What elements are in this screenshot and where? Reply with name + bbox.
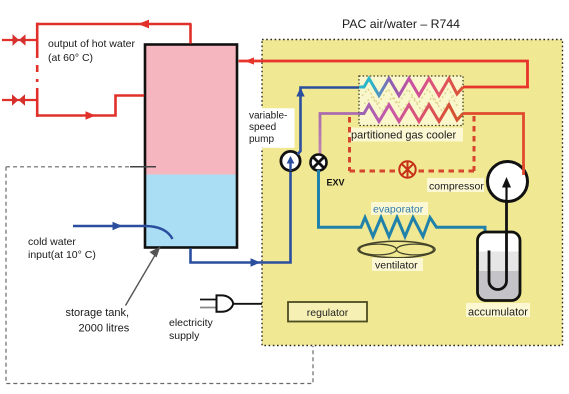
wire: EXV to evaporator (teal)	[319, 170, 357, 227]
electricity plug	[200, 295, 262, 311]
ventilator fan	[358, 241, 435, 257]
svg-text:partitioned gas cooler: partitioned gas cooler	[351, 130, 457, 142]
gas cooler GC1 box	[359, 76, 463, 126]
svg-text:EXV: EXV	[327, 178, 345, 188]
wire: hot water out, tank top riser	[189, 24, 192, 44]
evaporator coil	[356, 218, 485, 237]
svg-text:(at 60° C): (at 60° C)	[48, 52, 93, 64]
wire: left red drop (solid top)	[36, 23, 39, 55]
EXV valve	[311, 155, 327, 171]
gas cooler refrigerant coil (bottom row)	[359, 105, 463, 122]
svg-text:supply: supply	[169, 330, 200, 342]
wire: left red drop (solid bottom)	[36, 88, 39, 117]
regulator box	[288, 302, 367, 322]
label: ventilator	[372, 258, 423, 272]
arrow pump riser	[296, 88, 304, 97]
wire: bottom red run to tank	[36, 96, 144, 116]
wire: left red drop (dash-dot)	[36, 55, 39, 88]
boundary leader to tank (solid tick)	[130, 166, 156, 168]
compressor CP1	[488, 162, 528, 202]
svg-text:cold water: cold water	[28, 236, 76, 248]
system boundary (dashed box)	[6, 167, 313, 384]
arrow on return (left, near tank)	[245, 57, 255, 64]
PAC enclosure (yellow box)	[262, 40, 563, 346]
cold inlet curve inside tank	[146, 226, 173, 239]
svg-text:accumulator: accumulator	[468, 307, 528, 319]
svg-text:2000 litres: 2000 litres	[79, 323, 130, 335]
svg-text:input(at 10° C): input(at 10° C)	[28, 249, 96, 261]
fan/partition valve symbol (red circle with spokes)	[399, 161, 415, 177]
label: evaporator	[371, 202, 428, 216]
wire: EXV to gas cooler (refrigerant liquid, purple)	[320, 114, 359, 156]
wire: gas cooler to compressor (red, refrigerant)	[463, 114, 524, 175]
wire: cold water inlet	[73, 225, 146, 228]
gas cooler water coil (top row)	[359, 79, 463, 96]
svg-text:electricity: electricity	[169, 317, 214, 329]
U-tube and suction line to compressor	[489, 200, 507, 290]
label: partitioned gas cooler	[349, 128, 463, 142]
storage tank leader arrow	[126, 247, 161, 306]
arrow on top run (left)	[138, 20, 149, 29]
valve V2	[12, 94, 25, 105]
label: variable-speed pump	[248, 108, 295, 148]
partition dashed box	[350, 116, 475, 171]
svg-text:variable-: variable-	[249, 110, 287, 121]
valve V2 stub	[2, 99, 38, 101]
wire: pump to gas cooler (water in)	[298, 88, 360, 155]
label: accumulator	[466, 303, 530, 319]
arrow on bottom red run (right)	[86, 111, 96, 120]
svg-text:regulator: regulator	[307, 307, 349, 319]
svg-text:evaporator: evaporator	[373, 204, 424, 216]
regulator-to-boundary dashed link	[312, 329, 314, 345]
svg-text:output of hot water: output of hot water	[48, 38, 135, 50]
svg-text:storage tank,: storage tank,	[66, 307, 130, 319]
label: compressor	[427, 178, 484, 193]
arrow on cold inlet	[113, 222, 123, 231]
svg-text:speed: speed	[249, 122, 276, 133]
svg-text:PAC air/water – R744: PAC air/water – R744	[342, 17, 460, 31]
valve V1	[13, 34, 26, 45]
arrow on drain run	[251, 258, 261, 267]
svg-text:compressor: compressor	[429, 181, 484, 193]
wire: hot water return (gas cooler to tank)	[239, 61, 528, 87]
wire: hot water out, top run	[36, 23, 192, 26]
wire: tank drain to pump	[191, 172, 291, 263]
accumulator AC1	[478, 200, 521, 301]
gas cooler faint coil 2	[364, 97, 458, 111]
svg-text:ventilator: ventilator	[375, 260, 418, 272]
storage tank	[145, 45, 237, 248]
svg-text:pump: pump	[249, 134, 274, 145]
gas cooler faint coil 1	[362, 89, 456, 104]
wire: return drop to gas cooler top row	[463, 86, 529, 89]
valve V1 stub	[2, 39, 38, 41]
pump P1	[281, 151, 300, 171]
